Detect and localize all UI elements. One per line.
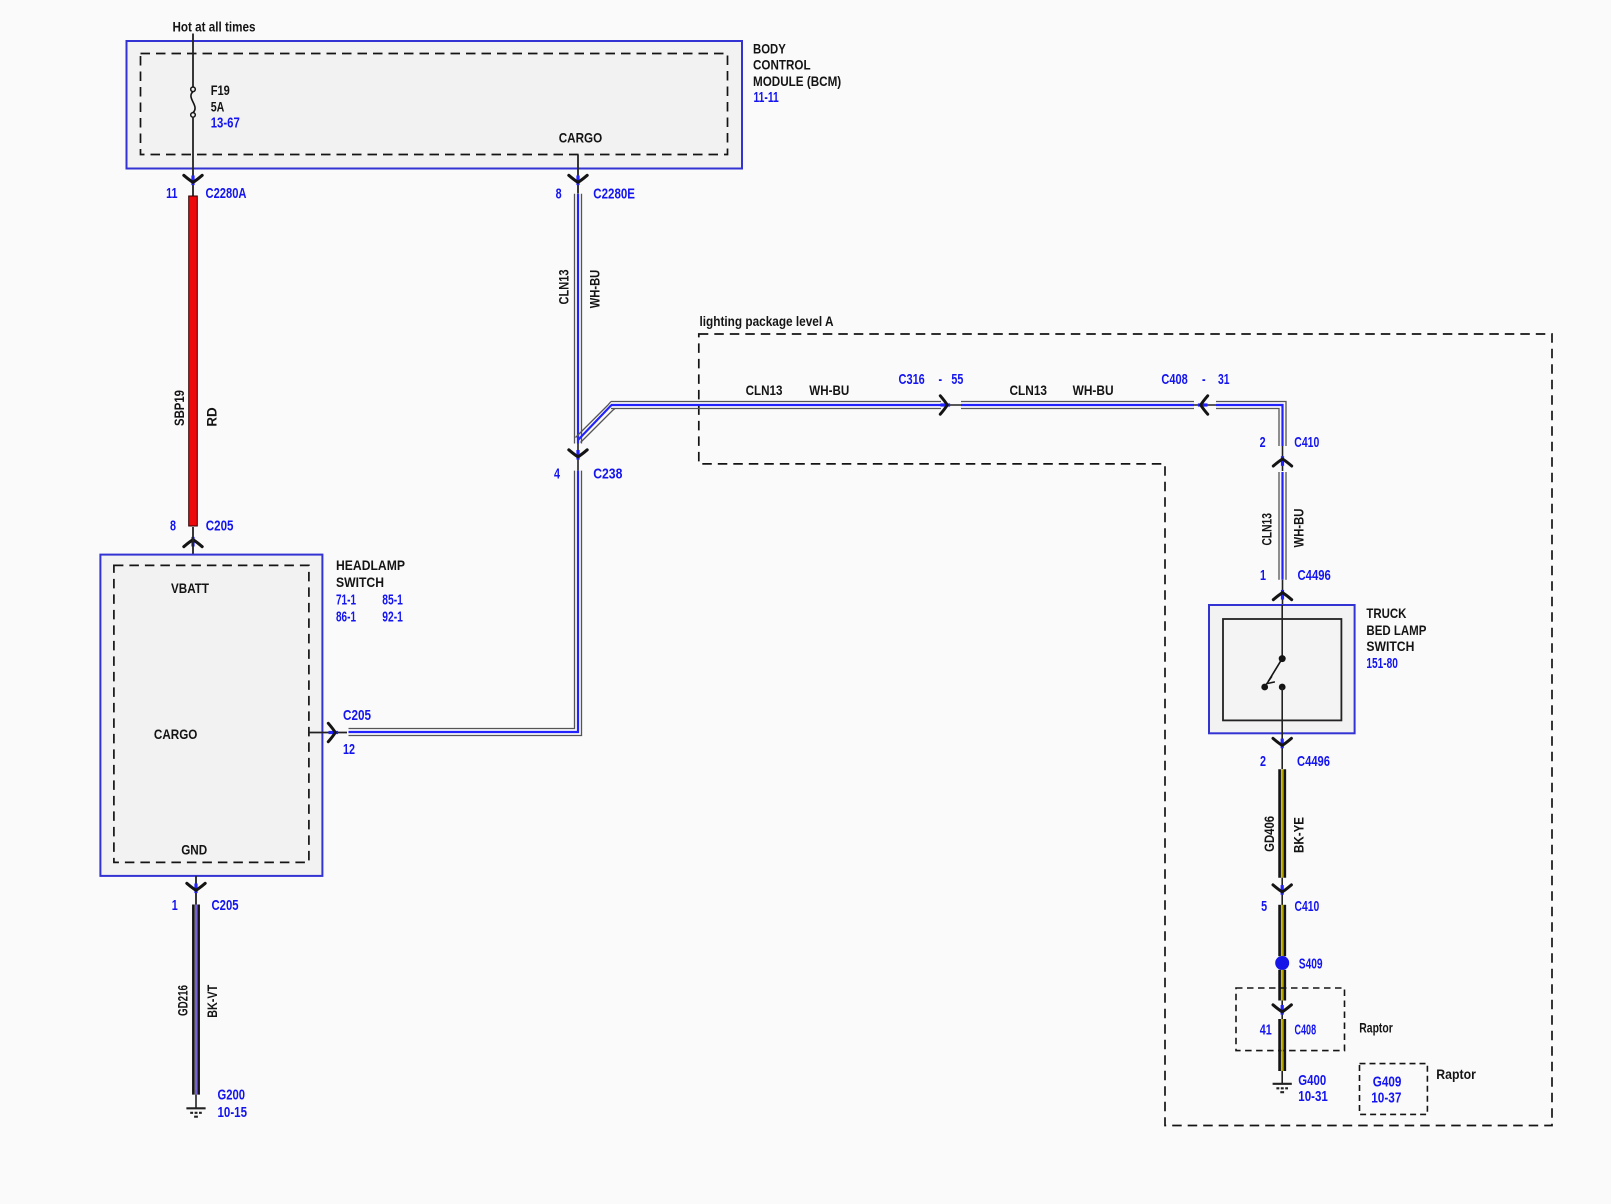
svg-text:-: - xyxy=(939,371,943,388)
svg-text:2: 2 xyxy=(1260,434,1266,451)
BCM inner dashed border xyxy=(141,54,728,155)
svg-text:MODULE (BCM): MODULE (BCM) xyxy=(753,73,841,89)
svg-text:12: 12 xyxy=(343,741,355,758)
connector arrow C316 pin 55 xyxy=(940,396,950,414)
svg-text:WH-BU: WH-BU xyxy=(1073,382,1114,398)
svg-text:C205: C205 xyxy=(212,897,239,914)
Raptor option dashed box C408 xyxy=(1236,988,1345,1051)
svg-text:C408: C408 xyxy=(1161,371,1187,388)
svg-text:41: 41 xyxy=(1260,1021,1272,1038)
svg-text:G409: G409 xyxy=(1373,1074,1402,1091)
svg-text:Hot at all times: Hot at all times xyxy=(173,19,256,35)
ground G200 xyxy=(186,1108,205,1116)
Raptor option dashed box G409 xyxy=(1360,1064,1428,1115)
svg-text:86-1: 86-1 xyxy=(336,609,356,626)
svg-text:C2280E: C2280E xyxy=(593,186,635,203)
wire GD406 BK-YE to splice xyxy=(1280,905,1285,956)
svg-text:C2280A: C2280A xyxy=(206,185,247,202)
connector arrow C238 pin 4 xyxy=(569,450,587,460)
svg-text:SWITCH: SWITCH xyxy=(1366,638,1414,654)
svg-text:C205: C205 xyxy=(206,518,234,535)
svg-text:C238: C238 xyxy=(593,466,622,483)
wire junction to C238 pin 4 xyxy=(577,444,579,471)
svg-text:85-1: 85-1 xyxy=(382,592,403,609)
svg-text:BODY: BODY xyxy=(753,41,786,57)
svg-text:CARGO: CARGO xyxy=(154,726,198,742)
svg-text:RD: RD xyxy=(204,407,220,426)
svg-text:BED LAMP: BED LAMP xyxy=(1366,622,1426,638)
wire switch input xyxy=(1281,605,1283,658)
svg-text:SBP19: SBP19 xyxy=(171,390,187,426)
connector arrow C2280E pin 8 xyxy=(569,175,587,185)
wire headlamp switch CARGO pin 12 xyxy=(309,732,347,734)
wire GD406 BK-YE to ground xyxy=(1280,1019,1285,1071)
wire into headlamp switch VBATT xyxy=(192,527,194,566)
truck bed lamp switch inner box xyxy=(1223,619,1341,720)
svg-text:8: 8 xyxy=(170,518,176,535)
svg-text:CLN13: CLN13 xyxy=(556,269,572,304)
svg-text:5: 5 xyxy=(1261,898,1267,915)
wire switch output xyxy=(1281,687,1283,769)
BCM module box xyxy=(127,41,743,169)
svg-text:4: 4 xyxy=(554,466,560,483)
svg-text:2: 2 xyxy=(1260,753,1266,770)
wire hot feed into fuse F19 xyxy=(192,34,194,88)
svg-text:71-1: 71-1 xyxy=(336,592,356,609)
wire CLN13 WH-BU vertical to switch xyxy=(1279,472,1286,580)
connector arrow C408 pin 41 xyxy=(1273,1005,1291,1015)
connector arrow C205 pin 12 xyxy=(328,723,338,741)
wire GD216 BK-VT (black/violet) xyxy=(193,905,198,1095)
connector arrow C205 pin 1 xyxy=(187,883,205,893)
svg-text:CLN13: CLN13 xyxy=(1259,513,1275,546)
svg-text:WH-BU: WH-BU xyxy=(587,270,603,309)
svg-text:151-80: 151-80 xyxy=(1366,655,1398,672)
wire CLN13 WH-BU vertical from BCM xyxy=(575,194,582,444)
connector arrow C4496 pin 2 xyxy=(1273,738,1291,748)
svg-text:C410: C410 xyxy=(1294,434,1319,451)
wire CLN13 WH-BU between C316 and C408 xyxy=(961,402,1194,409)
svg-text:C408: C408 xyxy=(1295,1021,1317,1038)
wire to ground G200 xyxy=(195,1095,197,1108)
svg-text:S409: S409 xyxy=(1299,956,1323,973)
svg-text:GND: GND xyxy=(181,842,207,858)
svg-text:BK-VT: BK-VT xyxy=(204,984,220,1017)
svg-text:11-11: 11-11 xyxy=(754,89,779,106)
svg-text:13-67: 13-67 xyxy=(211,115,240,132)
wire SBP19 RD (red) xyxy=(189,196,198,526)
svg-text:TRUCK: TRUCK xyxy=(1366,605,1406,621)
svg-text:GD216: GD216 xyxy=(175,985,191,1016)
wire fuse to BCM pin 11 xyxy=(192,117,194,196)
svg-text:VBATT: VBATT xyxy=(171,580,209,596)
svg-text:GD406: GD406 xyxy=(1261,816,1277,852)
switch contact common xyxy=(1279,655,1286,662)
wire junction branch to lighting package run xyxy=(576,402,616,443)
svg-text:SWITCH: SWITCH xyxy=(336,574,384,590)
wire CLN13 WH-BU corner down to C410 xyxy=(1216,402,1286,447)
connector arrow C410 pin 2 xyxy=(1273,456,1291,466)
svg-text:G200: G200 xyxy=(218,1087,246,1104)
wire headlamp switch GND to C205 pin 1 xyxy=(195,876,197,905)
connector arrow C410 pin 5 xyxy=(1273,885,1291,895)
headlamp switch inner dashed border xyxy=(114,565,309,862)
svg-text:CLN13: CLN13 xyxy=(1010,382,1048,398)
switch contact left xyxy=(1261,684,1268,691)
svg-text:CARGO: CARGO xyxy=(559,130,603,146)
svg-text:5A: 5A xyxy=(211,99,225,115)
ground G400 xyxy=(1273,1084,1292,1092)
switch blade xyxy=(1268,659,1282,682)
svg-text:11: 11 xyxy=(166,185,177,202)
svg-text:C4496: C4496 xyxy=(1297,753,1330,770)
svg-text:10-37: 10-37 xyxy=(1371,1089,1401,1106)
svg-text:lighting package level A: lighting package level A xyxy=(700,313,834,329)
svg-text:-: - xyxy=(1202,371,1206,388)
svg-text:C410: C410 xyxy=(1295,898,1320,915)
svg-text:C205: C205 xyxy=(343,707,371,724)
svg-text:HEADLAMP: HEADLAMP xyxy=(336,557,405,573)
wire GD406 BK-YE upper (black/yellow) xyxy=(1280,769,1285,877)
svg-text:WH-BU: WH-BU xyxy=(809,382,849,398)
svg-text:BK-YE: BK-YE xyxy=(1291,817,1307,853)
headlamp switch box xyxy=(100,555,322,876)
svg-text:Raptor: Raptor xyxy=(1359,1020,1393,1036)
svg-text:G400: G400 xyxy=(1298,1072,1326,1089)
lighting package level A dashed boundary xyxy=(699,334,1552,1126)
svg-text:8: 8 xyxy=(556,186,562,203)
connector arrow C2280A pin 11 xyxy=(184,175,202,185)
svg-text:10-31: 10-31 xyxy=(1298,1088,1328,1105)
switch contact right xyxy=(1279,684,1286,691)
svg-text:C4496: C4496 xyxy=(1298,567,1331,584)
svg-text:92-1: 92-1 xyxy=(382,609,403,626)
connector arrow C205 pin 8 xyxy=(184,537,202,547)
splice S409 xyxy=(1275,956,1289,970)
svg-text:CLN13: CLN13 xyxy=(746,382,783,398)
wire CLN13 WH-BU to C316 xyxy=(611,402,941,409)
svg-text:1: 1 xyxy=(1260,567,1266,584)
svg-text:C316: C316 xyxy=(899,371,925,388)
svg-text:F19: F19 xyxy=(211,82,230,98)
svg-text:1: 1 xyxy=(172,897,178,914)
svg-text:WH-BU: WH-BU xyxy=(1291,509,1307,548)
fuse F19 5A xyxy=(191,87,196,117)
wire GD406 BK-YE below splice xyxy=(1280,970,1285,1001)
svg-text:Raptor: Raptor xyxy=(1436,1066,1476,1082)
svg-text:55: 55 xyxy=(951,371,963,388)
truck bed lamp switch box xyxy=(1209,605,1355,733)
wire BCM CARGO to C2280E pin 8 xyxy=(577,155,579,194)
svg-text:31: 31 xyxy=(1218,371,1230,388)
connector arrow C408 pin 31 xyxy=(1198,396,1208,414)
svg-text:CONTROL: CONTROL xyxy=(753,57,811,73)
connector arrow C4496 pin 1 xyxy=(1273,590,1291,600)
svg-text:10-15: 10-15 xyxy=(218,1104,248,1121)
wire CLN13 WH-BU from C238 down to headlamp switch run xyxy=(349,471,582,736)
